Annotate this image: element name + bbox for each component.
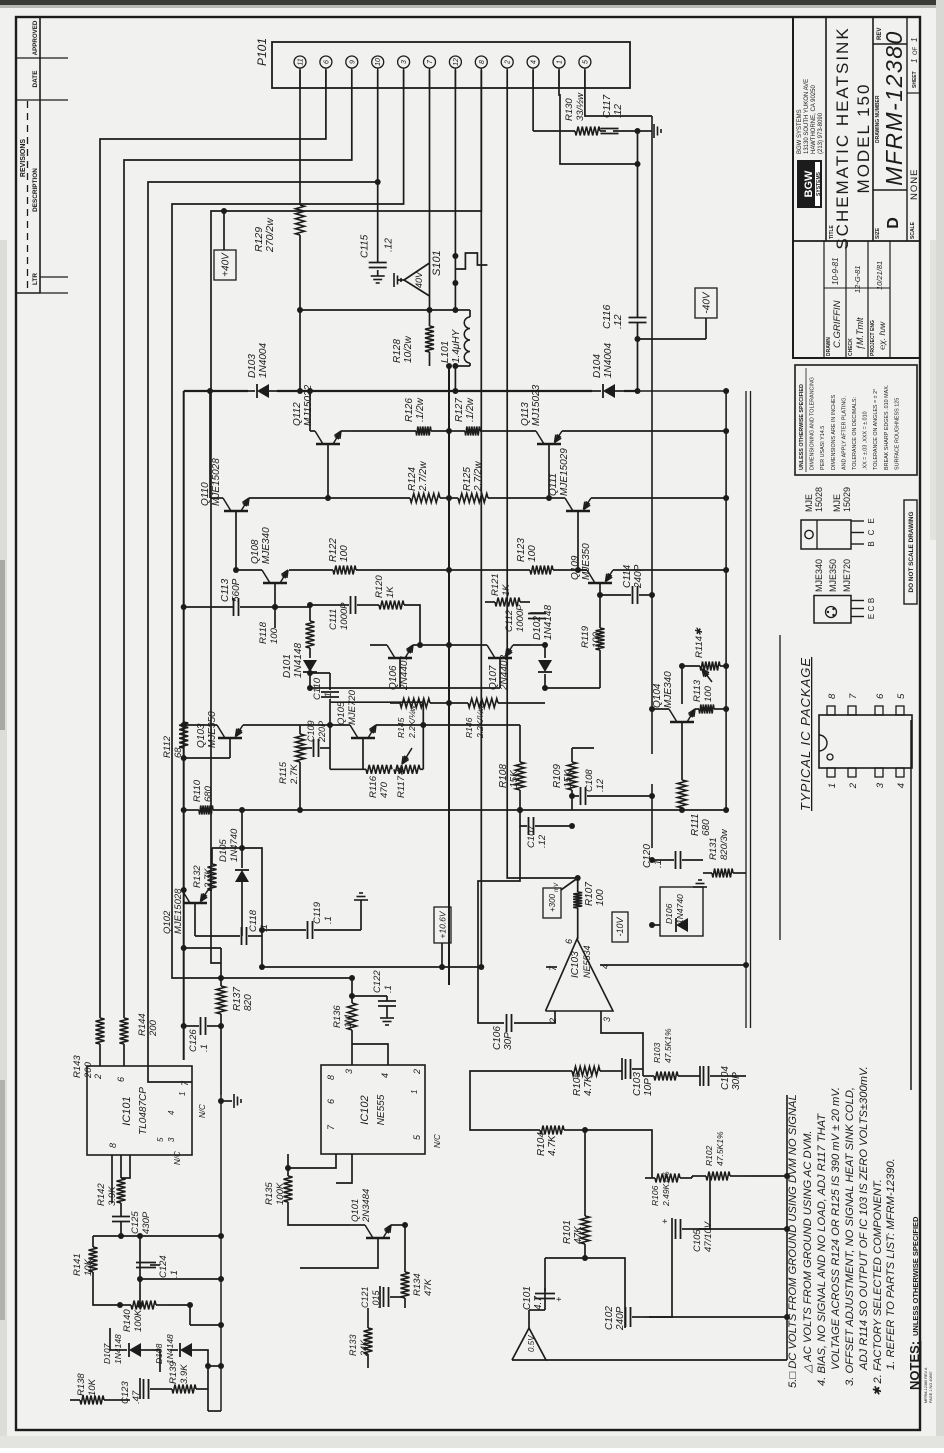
svg-text:C126: C126 xyxy=(188,1029,199,1052)
transistor Q107 2N4403 xyxy=(400,645,530,691)
svg-text:2: 2 xyxy=(93,1074,103,1080)
svg-text:R139: R139 xyxy=(168,1361,179,1384)
resistor R121 1K xyxy=(485,573,530,606)
resistor R120 1K xyxy=(372,575,423,648)
svg-text:C125: C125 xyxy=(130,1211,141,1234)
svg-text:NOTES:: NOTES: xyxy=(907,1341,922,1390)
svg-text:4: 4 xyxy=(896,783,907,788)
capacitor C107 .12 xyxy=(517,807,575,848)
diode D108 1N4148 xyxy=(154,1334,200,1364)
resistor R117 pot xyxy=(394,748,420,798)
capacitor C102 240P xyxy=(604,1306,645,1331)
svg-text:UNLESS OTHERWISE SPECIFIED: UNLESS OTHERWISE SPECIFIED xyxy=(911,1216,920,1336)
capacitor C115 .12 xyxy=(360,179,395,283)
svg-text:3: 3 xyxy=(602,1017,612,1022)
svg-text:MJ15022: MJ15022 xyxy=(303,384,314,426)
input test point 0.5V xyxy=(512,1310,546,1360)
svg-text:.1: .1 xyxy=(169,1270,180,1278)
svg-text:Q104: Q104 xyxy=(652,683,663,708)
resistor R122 100 xyxy=(328,538,452,575)
svg-text:+10.6V: +10.6V xyxy=(438,910,448,939)
svg-text:10/21/81: 10/21/81 xyxy=(875,261,884,290)
svg-text:1000P: 1000P xyxy=(515,604,526,632)
svg-text:100: 100 xyxy=(703,685,714,702)
wire R109 to column xyxy=(572,747,594,749)
svg-text:680: 680 xyxy=(701,819,712,836)
capacitor C109 220P xyxy=(300,720,330,757)
svg-text:4.7K: 4.7K xyxy=(547,1134,558,1156)
svg-text:5: 5 xyxy=(582,60,589,64)
svg-text:R135: R135 xyxy=(264,1182,275,1205)
svg-text:PER USASI Y14.5: PER USASI Y14.5 xyxy=(820,426,826,470)
connector pin 1 xyxy=(553,56,565,88)
svg-text:R120: R120 xyxy=(374,575,385,598)
transistor Q103 MJE350 xyxy=(181,711,300,761)
svg-text:1N4004: 1N4004 xyxy=(258,343,269,378)
svg-text:SCHEMATIC HEATSINK: SCHEMATIC HEATSINK xyxy=(833,26,852,249)
wire IC101 outputs xyxy=(93,1155,208,1400)
svg-text:2.2K/¼w: 2.2K/¼w xyxy=(475,704,485,739)
resistor R114 pot xyxy=(679,627,729,682)
svg-text:MJ15023: MJ15023 xyxy=(531,384,542,426)
resistor R108 15K xyxy=(423,725,524,810)
svg-text:R107: R107 xyxy=(584,882,595,906)
svg-text:12-G-81: 12-G-81 xyxy=(853,265,862,293)
svg-text:MFRM-12380: MFRM-12380 xyxy=(881,30,907,186)
connector pin 9 xyxy=(346,56,358,88)
resistor R136 1M xyxy=(332,975,357,1065)
resistor R142 3.9K xyxy=(96,1155,126,1206)
svg-text:C: C xyxy=(867,605,876,611)
transistor Q106 2N4401 xyxy=(310,642,452,691)
wire Q104 base extension xyxy=(681,666,683,704)
resistor R123 100 xyxy=(449,538,587,575)
svg-text:MJE720: MJE720 xyxy=(842,559,852,592)
svg-text:Q108: Q108 xyxy=(250,539,261,564)
svg-text:-40V: -40V xyxy=(702,291,713,313)
svg-text:100K: 100K xyxy=(275,1182,286,1205)
svg-text:.1/2w: .1/2w xyxy=(415,397,426,422)
resistor R104 4.7K xyxy=(530,1126,576,1157)
svg-text:D108: D108 xyxy=(154,1343,164,1364)
op-amp supply wires xyxy=(546,962,749,968)
IC101 NC labels xyxy=(173,1104,207,1165)
svg-text:1: 1 xyxy=(910,38,919,42)
svg-text:MJE: MJE xyxy=(832,494,842,512)
resistor R130 33/1/2w xyxy=(533,92,600,136)
svg-text:3.9K: 3.9K xyxy=(107,1186,118,1206)
svg-text:MJE15028: MJE15028 xyxy=(211,458,222,506)
notes text block xyxy=(787,1066,933,1403)
svg-text:MFRM-12380 REV A: MFRM-12380 REV A xyxy=(924,1367,928,1403)
svg-text:MJE15029: MJE15029 xyxy=(559,448,570,496)
svg-text:L101: L101 xyxy=(440,341,451,363)
svg-text:+300: +300 xyxy=(548,893,557,912)
svg-text:IC103: IC103 xyxy=(570,951,581,978)
svg-text:1. REFER TO PARTS LIST: MFR: 1. REFER TO PARTS LIST: MFRM-12390. xyxy=(885,1158,897,1370)
svg-text:SCALE: SCALE xyxy=(910,221,916,239)
resistor R127 .1/2w xyxy=(449,397,480,435)
svg-text:Q102: Q102 xyxy=(162,910,173,934)
svg-text:R142: R142 xyxy=(96,1183,107,1206)
svg-text:N/C: N/C xyxy=(198,1104,207,1118)
svg-text:15029: 15029 xyxy=(842,487,852,512)
svg-text:R111: R111 xyxy=(690,814,701,836)
svg-text:DO NOT SCALE DRAWING: DO NOT SCALE DRAWING xyxy=(908,512,915,593)
wire pin2 line xyxy=(507,70,581,881)
svg-text:1: 1 xyxy=(557,60,564,64)
svg-text:1N4740: 1N4740 xyxy=(675,894,685,924)
svg-text:2.7K: 2.7K xyxy=(289,764,300,785)
+10.6V box label xyxy=(434,907,451,970)
capacitor C114 240P xyxy=(597,564,655,604)
svg-text:R133: R133 xyxy=(348,1334,358,1356)
svg-text:30P: 30P xyxy=(731,1072,742,1090)
wire Q108 base network xyxy=(272,604,310,610)
svg-text:3: 3 xyxy=(167,1137,176,1142)
svg-text:.12: .12 xyxy=(595,778,606,792)
svg-text:8: 8 xyxy=(326,1075,336,1080)
resistor R109 15K xyxy=(520,748,729,813)
svg-text:C118: C118 xyxy=(248,909,259,932)
svg-text:C119: C119 xyxy=(312,901,323,924)
wire bus drop x=470 extension xyxy=(221,977,352,979)
svg-text:5: 5 xyxy=(896,693,907,699)
wire pin9 bus xyxy=(124,70,352,1018)
resistor R115 2.7K xyxy=(278,725,330,813)
svg-text:REV: REV xyxy=(877,28,883,40)
svg-text:2: 2 xyxy=(505,60,512,65)
timer IC102 NE555 xyxy=(321,1065,425,1154)
svg-text:R144: R144 xyxy=(137,1013,148,1036)
rail y=652 xyxy=(651,116,653,848)
svg-text:1N4740: 1N4740 xyxy=(229,828,240,862)
resistor R129 270/2w xyxy=(253,205,305,253)
wire pin6 bus xyxy=(100,70,326,1018)
svg-text:R117✱: R117✱ xyxy=(396,767,407,798)
svg-text:.12: .12 xyxy=(612,314,624,329)
svg-text:PAGE 1 NO 40897: PAGE 1 NO 40897 xyxy=(929,1371,933,1403)
capacitor C108 .12 xyxy=(569,769,655,805)
wire pin4 line xyxy=(532,70,534,131)
svg-text:3: 3 xyxy=(401,60,408,64)
svg-text:2.7/2w: 2.7/2w xyxy=(418,461,429,492)
capacitor C101 4.7 xyxy=(522,1255,588,1310)
svg-text:4: 4 xyxy=(167,1110,176,1115)
svg-text:D105: D105 xyxy=(218,839,229,862)
svg-text:100: 100 xyxy=(269,627,280,644)
svg-text:R108: R108 xyxy=(498,764,509,788)
svg-text:.1: .1 xyxy=(383,985,394,993)
svg-text:R127: R127 xyxy=(454,398,465,422)
svg-text:C108: C108 xyxy=(584,769,595,792)
svg-text:R141: R141 xyxy=(72,1253,83,1276)
resistor R126 .1/2w xyxy=(352,397,452,435)
resistor R106 2.49K 1% xyxy=(645,1171,692,1207)
svg-text:2.7K: 2.7K xyxy=(203,868,214,889)
jumper S101 xyxy=(431,250,487,276)
svg-text:℮χ. ƕw: ℮χ. ƕw xyxy=(877,321,887,350)
transistor Q111 MJE15029 xyxy=(488,448,729,573)
ground at IC101 xyxy=(218,1094,241,1108)
svg-text:SHEET: SHEET xyxy=(912,71,918,88)
svg-text:C103: C103 xyxy=(632,1072,643,1096)
rail B y=221 input section xyxy=(220,1095,222,1411)
svg-text:2: 2 xyxy=(848,782,859,789)
svg-text:430P: 430P xyxy=(141,1211,152,1234)
svg-text:R112: R112 xyxy=(162,735,173,758)
rail A y=183.7 xyxy=(183,391,185,1060)
svg-text:C115: C115 xyxy=(360,234,371,258)
wire pin12 line xyxy=(452,70,458,313)
svg-text:BGW: BGW xyxy=(803,170,815,198)
svg-text:47.5K1%: 47.5K1% xyxy=(715,1131,725,1166)
diode D104 1N4004 xyxy=(592,343,624,398)
svg-text:Q106: Q106 xyxy=(388,665,399,690)
svg-text:+40V: +40V xyxy=(221,252,232,277)
svg-text:C104: C104 xyxy=(720,1066,731,1090)
svg-text:VOLTAGE ACROSS R124 OR R12: VOLTAGE ACROSS R124 OR R125 IS 390 mV ± … xyxy=(830,1087,842,1370)
wire IC102 network xyxy=(285,1044,388,1268)
connector pin 6 xyxy=(320,56,332,88)
svg-text:.1: .1 xyxy=(653,860,664,868)
svg-text:47K: 47K xyxy=(423,1278,434,1296)
svg-text:2.7/2w: 2.7/2w xyxy=(473,461,484,492)
+300mV box label xyxy=(543,878,578,918)
capacitor C125 430P xyxy=(112,1203,152,1236)
wire input section xyxy=(470,1069,746,1317)
svg-text:DIMENSIONS ARE IN INCHES: DIMENSIONS ARE IN INCHES xyxy=(831,394,837,470)
svg-text:R121: R121 xyxy=(490,573,501,596)
svg-text:200: 200 xyxy=(148,1019,159,1037)
svg-text:D104: D104 xyxy=(592,354,603,378)
svg-text:40V: 40V xyxy=(414,271,424,288)
svg-text:N/C: N/C xyxy=(433,1134,442,1148)
svg-text:R109: R109 xyxy=(552,764,563,788)
wire pin1 line xyxy=(559,70,641,167)
svg-text:UNLESS OTHERWISE SPECIFIED: UNLESS OTHERWISE SPECIFIED xyxy=(799,384,805,470)
svg-text:6: 6 xyxy=(326,1099,336,1104)
resistor R118 100 xyxy=(258,607,315,648)
wire pin8 bus xyxy=(211,70,481,963)
svg-text:4. BIAS, NO SIGNAL AND NO LOA: 4. BIAS, NO SIGNAL AND NO LOAD, ADJ R117… xyxy=(816,1113,828,1386)
svg-text:C121: C121 xyxy=(360,1286,370,1308)
svg-text:680: 680 xyxy=(203,785,214,802)
svg-text:3.9K: 3.9K xyxy=(179,1364,190,1384)
capacitor C110 .1 xyxy=(307,670,339,702)
svg-text:DIMENSIONING AND TOLERANCING: DIMENSIONING AND TOLERANCING xyxy=(810,377,816,470)
svg-text:R113: R113 xyxy=(692,679,703,702)
svg-text:R101: R101 xyxy=(562,1220,573,1244)
svg-text:DESCRIPTION: DESCRIPTION xyxy=(32,168,39,212)
wire R143 to IC101 xyxy=(99,1044,101,1066)
svg-text:LTR: LTR xyxy=(32,273,39,285)
svg-text:240P: 240P xyxy=(615,1306,626,1331)
transistor Q105 MJE720 xyxy=(327,689,426,769)
svg-text:R104: R104 xyxy=(536,1132,547,1156)
svg-text:1: 1 xyxy=(410,1090,419,1094)
svg-text:MJE: MJE xyxy=(804,494,814,512)
svg-text:TOLERANCE ON DECIMALS:: TOLERANCE ON DECIMALS: xyxy=(852,397,858,470)
package drawing MJE340/350/720 xyxy=(814,559,876,623)
svg-text:C122: C122 xyxy=(372,970,383,993)
resistor R105 4.7K xyxy=(560,1067,612,1097)
rail y=750.5 xyxy=(750,391,752,1028)
svg-text:Q113: Q113 xyxy=(520,402,531,426)
transistor Q110 MJE15028 xyxy=(200,388,410,573)
svg-text:ADJ R114 SO OUTPUT OF IC 103: ADJ R114 SO OUTPUT OF IC 103 IS ZERO VOL… xyxy=(858,1066,870,1371)
diode D103 1N4004 xyxy=(247,343,277,398)
svg-text:10-9-81: 10-9-81 xyxy=(831,257,840,285)
svg-text:560P: 560P xyxy=(231,578,242,602)
wire pin11 to R129 xyxy=(299,70,301,205)
svg-text:SURFACE ROUGHNESS 125: SURFACE ROUGHNESS 125 xyxy=(894,398,900,470)
svg-text:C114: C114 xyxy=(622,564,633,588)
svg-text:10P: 10P xyxy=(643,1078,654,1096)
svg-text:R145: R145 xyxy=(396,717,406,738)
ground below C119 xyxy=(354,893,368,930)
svg-text:1: 1 xyxy=(910,59,919,63)
resistor R137 820 xyxy=(181,945,254,1028)
svg-text:NE5534: NE5534 xyxy=(582,945,592,978)
wire pin3 bus xyxy=(172,70,404,981)
svg-text:OF: OF xyxy=(913,46,919,55)
svg-text:220P: 220P xyxy=(317,721,327,743)
zener D106 1N4740 block xyxy=(649,880,707,936)
svg-text:TOLERANCE ON ANGLES = ± 2°: TOLERANCE ON ANGLES = ± 2° xyxy=(873,389,879,470)
svg-text:△ AC VOLTS FROM GROUND USING A: △ AC VOLTS FROM GROUND USING AC DVM. xyxy=(802,1130,814,1374)
svg-text:P101: P101 xyxy=(255,38,269,66)
svg-text:DATE: DATE xyxy=(32,70,39,88)
svg-text:1N4148: 1N4148 xyxy=(113,1334,123,1364)
svg-text:10: 10 xyxy=(375,58,382,66)
wire C116 line xyxy=(635,131,641,394)
resistor R138 10K xyxy=(70,1373,116,1405)
svg-text:24K: 24K xyxy=(359,1339,369,1357)
+40V box label xyxy=(214,208,236,280)
capacitor C118 .1 xyxy=(195,848,270,945)
resistor R134 47K xyxy=(401,1222,435,1308)
revisions table xyxy=(16,17,68,293)
svg-text:10K: 10K xyxy=(83,1258,94,1276)
svg-text:IC102: IC102 xyxy=(359,1095,371,1124)
svg-text:100: 100 xyxy=(591,631,602,648)
svg-text:Q111: Q111 xyxy=(548,473,559,496)
resistor R102 47.5K 1% xyxy=(692,1131,745,1180)
svg-text:R118: R118 xyxy=(258,621,269,644)
svg-text:SYSTEMS: SYSTEMS xyxy=(816,171,822,196)
svg-text:Q103: Q103 xyxy=(196,723,207,748)
svg-text:C105: C105 xyxy=(692,1229,703,1252)
svg-text:11: 11 xyxy=(298,58,305,65)
wire ladder drops to rail B xyxy=(137,1233,224,1411)
capacitor C116 .12 xyxy=(601,305,647,329)
svg-text:6: 6 xyxy=(875,693,886,699)
output rail y=449 xyxy=(446,363,452,985)
do not scale drawing strip xyxy=(904,500,917,604)
svg-text:+: + xyxy=(554,1297,564,1302)
svg-text:2N3484: 2N3484 xyxy=(361,1189,372,1223)
scan edge artifacts xyxy=(0,0,944,5)
resistor R101 47K xyxy=(562,1198,590,1258)
title block xyxy=(793,17,920,358)
svg-text:100K: 100K xyxy=(133,1309,144,1332)
svg-text:C102: C102 xyxy=(604,1306,615,1330)
svg-text:CHECK: CHECK xyxy=(848,338,854,356)
capacitor C103 10P xyxy=(622,1058,654,1096)
svg-text:NE555: NE555 xyxy=(376,1094,387,1125)
svg-text:MJE350: MJE350 xyxy=(207,711,218,748)
resistor R135 100K xyxy=(264,1154,293,1216)
svg-text:R131: R131 xyxy=(708,837,719,860)
svg-text:R125: R125 xyxy=(462,467,473,491)
svg-text:47.5K1%: 47.5K1% xyxy=(663,1028,673,1063)
svg-text:47K: 47K xyxy=(573,1225,584,1244)
-40V box label xyxy=(635,288,718,342)
svg-text:.47: .47 xyxy=(131,1390,142,1404)
svg-text:D: D xyxy=(885,217,902,229)
capacitor C124 .1 xyxy=(136,1254,180,1278)
transistor Q108 MJE340 xyxy=(236,527,333,607)
svg-text:470: 470 xyxy=(379,781,390,798)
svg-text:4: 4 xyxy=(531,60,538,64)
svg-text:.12: .12 xyxy=(384,238,395,252)
svg-text:B: B xyxy=(867,598,876,603)
svg-text:R130: R130 xyxy=(564,98,575,121)
svg-text:MJE720: MJE720 xyxy=(347,689,358,725)
svg-text:C109: C109 xyxy=(306,720,316,742)
connector pin 2 xyxy=(501,56,513,88)
transistor Q112 MJ15022 xyxy=(292,384,352,501)
svg-text:.XX = ±.03 .XXX = ±.010: .XX = ±.03 .XXX = ±.010 xyxy=(863,411,869,470)
svg-text:R143: R143 xyxy=(72,1055,83,1078)
capacitor C126 .1 xyxy=(181,1017,224,1052)
svg-text:1N4148: 1N4148 xyxy=(293,643,304,678)
-10V box label xyxy=(612,912,628,942)
svg-text:R136: R136 xyxy=(332,1005,343,1028)
svg-text:1M: 1M xyxy=(343,1015,354,1028)
svg-text:MJE340: MJE340 xyxy=(663,671,674,708)
svg-text:.1: .1 xyxy=(323,692,334,700)
typical IC package drawing xyxy=(798,657,912,811)
svg-text:15028: 15028 xyxy=(814,487,824,512)
transistor Q104 MJE340 xyxy=(649,671,699,735)
parts strip line xyxy=(910,720,912,1090)
svg-text:2.2K/¼w: 2.2K/¼w xyxy=(407,704,417,739)
bias block box around Q105 xyxy=(330,702,423,769)
svg-text:1000P: 1000P xyxy=(339,602,350,630)
resistor R143 200 xyxy=(72,1018,105,1079)
svg-text:E: E xyxy=(867,518,876,523)
svg-text:APPROVED: APPROVED xyxy=(32,20,39,55)
capacitor C117 .12 xyxy=(600,94,661,138)
transistor Q109 MJE350 xyxy=(553,543,729,595)
resistor R119 100 xyxy=(545,595,605,688)
svg-text:SIZE: SIZE xyxy=(875,227,881,239)
wire pin10 bus xyxy=(148,70,378,1082)
op-amp IC103 NE5534 xyxy=(546,939,614,1024)
capacitor C119 .1 xyxy=(259,901,361,939)
svg-text:270/2w: 270/2w xyxy=(264,217,276,253)
svg-text:10K: 10K xyxy=(87,1378,98,1396)
svg-text:E: E xyxy=(867,614,876,619)
svg-text:✱ 2. FACTORY SELECTED COMPON: ✱ 2. FACTORY SELECTED COMPONENT. xyxy=(872,1179,884,1396)
svg-text:MJE350: MJE350 xyxy=(828,559,838,592)
resistor R116 470 xyxy=(366,765,392,798)
svg-text:100: 100 xyxy=(527,545,538,562)
svg-text:R105: R105 xyxy=(572,1072,583,1096)
svg-text:3: 3 xyxy=(344,1069,354,1074)
